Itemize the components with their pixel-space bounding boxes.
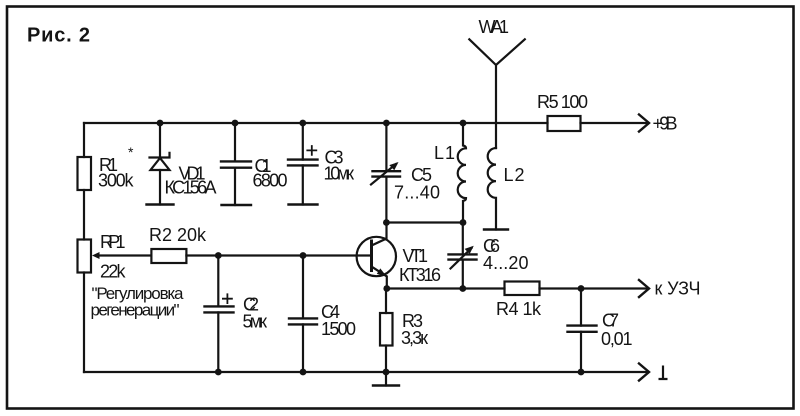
- junction node collector: [383, 219, 390, 226]
- wire C4 bottom lead: [302, 324, 304, 372]
- ground bar under VD1: [147, 203, 174, 205]
- capacitor C4 top lead: [302, 256, 304, 319]
- inductor L2: [488, 148, 496, 230]
- junction node C5 top: [383, 120, 390, 127]
- svg-text:R4 1k: R4 1k: [496, 299, 542, 319]
- junction node L1 top: [460, 120, 467, 127]
- arrowhead of C5: [389, 162, 398, 170]
- resistor R1: [78, 157, 92, 190]
- figure caption: [27, 25, 90, 47]
- wire C1 bottom lead: [234, 168, 236, 205]
- svg-text:Рис. 2: Рис. 2: [27, 25, 90, 47]
- arrow to AF amplifier: [639, 280, 649, 297]
- wire top rail right of R5: [581, 122, 649, 124]
- junction node VD1 top: [157, 120, 164, 127]
- arrow to +9V: [639, 115, 649, 132]
- wire C1 top lead: [234, 123, 236, 161]
- capacitor C5 variable: [373, 171, 401, 176]
- wire RP1 bottom to bottom rail: [83, 273, 85, 373]
- junction node C7 bottom: [578, 369, 585, 376]
- svg-text:0,01: 0,01: [601, 329, 633, 349]
- resistor R4: [505, 282, 540, 296]
- capacitor C2 top lead: [217, 256, 219, 307]
- junction node C6 bottom: [459, 285, 466, 292]
- svg-text:300k: 300k: [98, 171, 135, 191]
- wire C2 bottom lead: [217, 312, 219, 372]
- wire C7 bottom lead: [580, 332, 582, 372]
- svg-text:22k: 22k: [100, 262, 127, 282]
- svg-text:R2 20k: R2 20k: [149, 225, 207, 245]
- resistor R2: [151, 249, 186, 263]
- svg-text:6800: 6800: [253, 171, 288, 191]
- capacitor C7: [568, 326, 597, 332]
- wire RP1 wiper to R2: [98, 254, 151, 256]
- wire C3 top lead: [302, 123, 304, 160]
- wire top rail left of R5: [84, 122, 548, 124]
- svg-text:C7: C7: [602, 310, 619, 330]
- svg-text:к УЗЧ: к УЗЧ: [655, 279, 701, 299]
- wire VD1 top lead: [159, 123, 161, 158]
- ground bar under C3: [289, 203, 318, 205]
- wire bottom rail: [84, 371, 648, 373]
- resistor R3 top lead: [385, 289, 387, 314]
- inductor L1: [458, 123, 466, 223]
- svg-text:WA1: WA1: [479, 17, 510, 37]
- wire C6 bottom lead: [462, 260, 464, 289]
- transistor VT1 base bar: [370, 241, 373, 271]
- svg-text:+9В: +9В: [653, 114, 678, 134]
- svg-text:VT1: VT1: [403, 246, 429, 266]
- junction node C1 top: [232, 120, 239, 127]
- svg-text:5мк: 5мк: [243, 312, 268, 332]
- junction node C4 bottom: [300, 369, 307, 376]
- ground bar under C1: [222, 204, 252, 206]
- junction node C2 bottom: [215, 369, 222, 376]
- svg-text:L1: L1: [434, 143, 455, 163]
- capacitor C4: [289, 318, 317, 324]
- svg-text:7...40: 7...40: [394, 183, 440, 203]
- svg-text:R5 100: R5 100: [537, 92, 588, 112]
- wire C5 top lead: [385, 123, 387, 171]
- arrow of C5: [371, 164, 396, 185]
- wire R4 to output: [540, 287, 649, 289]
- antenna WA1: [469, 39, 525, 148]
- svg-text:*: *: [128, 144, 134, 160]
- junction node emitter: [383, 285, 390, 292]
- wire C3 bottom lead: [302, 165, 304, 204]
- ground bar under L2: [484, 228, 508, 230]
- wire R1 to RP1: [83, 190, 85, 240]
- junction node C4 base line: [300, 252, 307, 259]
- capacitor C6 variable top lead: [462, 223, 464, 255]
- svg-text:КТ316: КТ316: [399, 265, 441, 285]
- arrow to common at bottom right: [639, 364, 649, 381]
- wire VD1 bottom lead: [159, 170, 161, 205]
- wire C5 bottom lead: [385, 177, 387, 223]
- potentiometer RP1: [78, 240, 92, 273]
- capacitor C6 variable: [449, 254, 477, 259]
- junction node C2 base line: [215, 252, 222, 259]
- svg-text:L2: L2: [504, 165, 525, 185]
- junction node L1 bottom: [460, 219, 467, 226]
- wire left vertical top (rail corner to R1): [83, 123, 85, 157]
- wire emitter rail to R4: [387, 287, 505, 289]
- junction node C3 top: [299, 120, 306, 127]
- svg-text:регенерации": регенерации": [91, 301, 180, 320]
- arrowhead of VT1 emitter: [377, 268, 387, 276]
- svg-text:КС156А: КС156А: [165, 178, 217, 198]
- arrowhead of RP1 wiper: [92, 252, 100, 259]
- capacitor C7 top lead: [580, 289, 582, 326]
- junction node R3 bottom: [383, 369, 390, 376]
- resistor R3 bottom lead: [385, 346, 387, 373]
- junction node C7 top: [578, 285, 585, 292]
- diode VD1 zener: [150, 153, 170, 170]
- wire R2 to VT1 base: [186, 254, 371, 256]
- transistor VT1 emitter lead: [372, 267, 387, 289]
- svg-text:RP1: RP1: [100, 232, 126, 252]
- ground stub below bottom rail: [385, 372, 387, 386]
- svg-text:3,3к: 3,3к: [401, 328, 428, 348]
- svg-text:4...20: 4...20: [483, 253, 529, 273]
- resistor R5: [548, 116, 581, 131]
- arrow of C6: [451, 248, 472, 269]
- ground bar at bottom: [373, 384, 399, 386]
- wire collector node to L1 node: [386, 221, 463, 223]
- svg-text:10мк: 10мк: [324, 163, 355, 183]
- plus sign of C3: [307, 146, 316, 155]
- capacitor C2: [205, 306, 234, 312]
- capacitor C3: [288, 160, 318, 166]
- svg-text:1500: 1500: [321, 319, 356, 339]
- transistor VT1 circle: [357, 237, 396, 276]
- common chassis symbol at bottom right: [659, 366, 668, 380]
- capacitor C1: [221, 161, 251, 167]
- resistor R3: [380, 313, 393, 346]
- plus sign of C2: [223, 294, 232, 303]
- transistor VT1 collector lead: [372, 223, 387, 246]
- arrowhead of C6: [465, 246, 474, 254]
